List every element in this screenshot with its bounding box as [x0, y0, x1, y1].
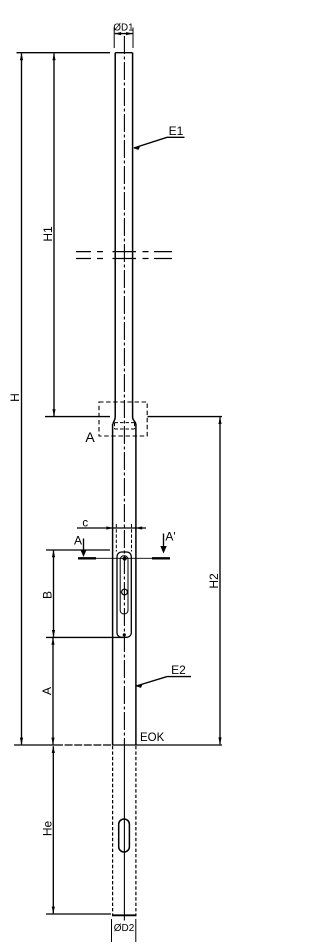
- node door bottom fastener dot: [123, 633, 126, 636]
- svg-text:E2: E2: [171, 663, 186, 677]
- node cable slot buried section: [119, 819, 130, 852]
- node dimension H1: [52, 53, 55, 416]
- svg-text:A: A: [40, 687, 54, 695]
- svg-text:He: He: [41, 821, 55, 837]
- label EOK: [140, 732, 165, 744]
- label c: [82, 518, 88, 530]
- label diameter D2: [114, 923, 135, 934]
- label B: [41, 591, 55, 599]
- wire lower pole right edge: [135, 424, 137, 746]
- node dimension D2: [112, 919, 136, 942]
- node dimension A: [51, 638, 54, 745]
- node leader E1: [134, 137, 185, 150]
- node section marker A prime right: [152, 534, 170, 559]
- node leader E2: [136, 677, 191, 688]
- svg-text:ØD1: ØD1: [113, 23, 133, 34]
- label H1: [41, 226, 55, 242]
- wire buried pole right edge dashed: [135, 746, 137, 915]
- node joint seam upper line: [76, 251, 172, 253]
- node dimension D1: [114, 28, 133, 49]
- wire pole top edge: [115, 52, 132, 54]
- wire extension line joint left: [45, 416, 110, 418]
- node joint seam lower line: [76, 258, 172, 260]
- wire extension line door bottom: [46, 636, 124, 638]
- wire extension line pole top: [17, 52, 111, 54]
- label E1: [169, 124, 184, 138]
- label section A prime: [165, 530, 175, 544]
- node door inner outline: [120, 556, 128, 614]
- label diameter D1: [113, 23, 133, 34]
- label section A: [74, 534, 82, 548]
- svg-text:c: c: [82, 518, 88, 530]
- node socket hidden rim dashed: [115, 423, 135, 429]
- svg-text:A: A: [74, 534, 82, 548]
- svg-text:A: A: [85, 429, 95, 445]
- label E2: [171, 663, 186, 677]
- node door lock circle: [121, 589, 129, 595]
- wire extension line door top: [46, 549, 110, 551]
- node door outer outline: [117, 552, 131, 637]
- label A dimension: [40, 687, 54, 695]
- node dimension B: [52, 550, 55, 637]
- wire upper pole left edge: [113, 53, 115, 425]
- node detail box A dashed rectangle: [99, 402, 147, 436]
- wire section line across pole: [96, 557, 152, 559]
- svg-text:H: H: [8, 393, 22, 402]
- label H: [8, 393, 22, 402]
- svg-text:ØD2: ØD2: [114, 923, 135, 934]
- node EOK ground line: [14, 744, 222, 746]
- wire pole bottom edge: [112, 914, 137, 916]
- wire pole centerline dash-dot: [123, 36, 125, 921]
- svg-text:H1: H1: [41, 226, 55, 242]
- svg-text:H2: H2: [207, 573, 221, 589]
- label He: [41, 821, 55, 837]
- node dimension c: [77, 526, 146, 529]
- wire extension line pole bottom: [46, 913, 111, 915]
- node dimension H: [20, 53, 23, 744]
- node section marker A left: [78, 539, 96, 559]
- svg-text:E1: E1: [169, 124, 184, 138]
- node dimension He: [52, 746, 55, 914]
- wire buried pole left edge dashed: [112, 746, 114, 915]
- svg-text:A': A': [165, 530, 175, 544]
- label H2: [207, 573, 221, 589]
- node hidden door opening edges above door: [116, 524, 131, 552]
- svg-text:EOK: EOK: [140, 732, 165, 744]
- svg-text:B: B: [41, 591, 55, 599]
- wire lower pole left edge: [112, 424, 114, 746]
- node door top fastener dot: [122, 556, 127, 561]
- node dimension H2: [218, 417, 221, 744]
- label detail A: [85, 429, 95, 445]
- wire extension line joint right: [148, 416, 223, 418]
- wire upper pole right edge: [133, 53, 136, 425]
